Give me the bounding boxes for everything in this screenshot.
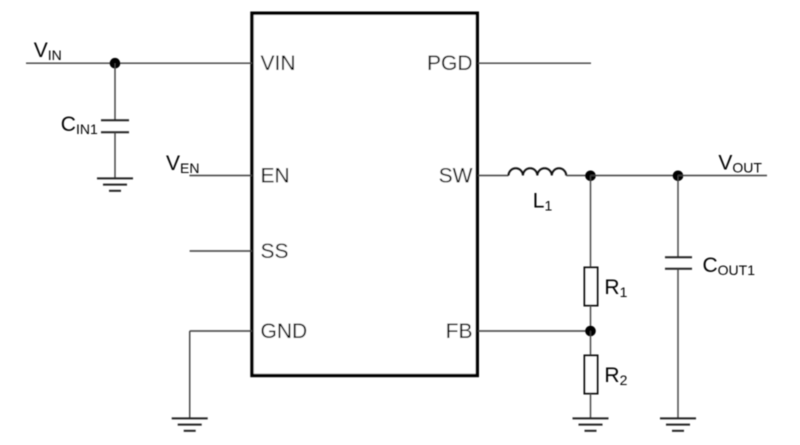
svg-text:R1: R1: [604, 276, 627, 300]
ground under R2: [573, 418, 609, 430]
wire SW node down to R1: [590, 176, 592, 268]
wire GND pin horizontal: [190, 330, 252, 332]
svg-text:VEN: VEN: [166, 152, 199, 176]
ground under COUT1: [660, 418, 696, 430]
node VOUT junction: [673, 171, 684, 182]
inductor L1: [509, 168, 567, 175]
wire VIN node to CIN1: [114, 63, 116, 120]
wire FB pin: [478, 330, 591, 332]
wire GND vertical: [189, 331, 191, 418]
capacitor COUT1: [665, 257, 692, 269]
wire inductor to SW node: [566, 175, 590, 177]
wire VOUT node down to COUT1: [677, 176, 679, 258]
svg-text:FB: FB: [446, 320, 473, 343]
wire COUT1 to ground: [677, 269, 679, 418]
wire PGD stub: [478, 62, 591, 64]
wire SW to inductor: [478, 175, 509, 177]
node FB junction: [585, 326, 596, 337]
wire SS stub: [190, 250, 252, 252]
svg-text:R2: R2: [604, 364, 627, 388]
svg-text:VOUT: VOUT: [718, 152, 762, 176]
svg-text:SW: SW: [439, 165, 473, 188]
resistor R2: [585, 356, 598, 394]
svg-text:VIN: VIN: [261, 52, 296, 75]
svg-text:SS: SS: [261, 240, 289, 263]
wire R1 to FB node: [590, 306, 592, 332]
svg-text:GND: GND: [261, 320, 308, 343]
resistor R1: [585, 268, 598, 306]
node SW junction: [585, 171, 596, 182]
wire VIN input: [26, 62, 252, 64]
wire EN input: [189, 175, 252, 177]
node VIN junction: [110, 58, 121, 69]
svg-text:CIN1: CIN1: [61, 113, 98, 137]
ground under GND pin: [172, 418, 208, 430]
wire VOUT output: [678, 175, 767, 177]
svg-text:VIN: VIN: [34, 39, 62, 63]
svg-text:L1: L1: [533, 190, 553, 214]
wire FB node to R2: [590, 331, 592, 356]
wire R2 to ground: [590, 394, 592, 419]
wire SW node to VOUT node: [591, 175, 679, 177]
wire CIN1 to ground: [114, 132, 116, 178]
svg-text:EN: EN: [261, 165, 290, 188]
svg-text:PGD: PGD: [427, 52, 473, 75]
ground under CIN1: [97, 178, 133, 190]
svg-text:COUT1: COUT1: [703, 254, 756, 278]
IC box: [252, 13, 477, 375]
capacitor CIN1: [101, 120, 129, 132]
